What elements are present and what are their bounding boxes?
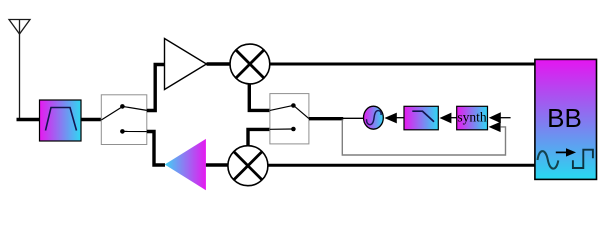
arrow into synth (feedback) (489, 122, 501, 132)
VCO oscillator (364, 106, 384, 129)
arrow into loop filter (440, 113, 452, 124)
low-pass symbol (412, 111, 434, 122)
T/R switch SW1 box (101, 95, 147, 145)
SW2 bottom contact dot (291, 127, 296, 132)
LO wire SW2 to VCO (thick part) (309, 117, 343, 120)
sine symbol in VCO (367, 111, 382, 125)
PA amplifier (165, 139, 206, 190)
wire RX mixer to BB (270, 63, 536, 66)
wire TX mixer to PA (206, 163, 229, 166)
wire antenna to RF filter (17, 118, 41, 121)
SW1 top throw wire (122, 106, 146, 110)
wire TX mixer LO port to SW2 (248, 129, 270, 146)
SW2 top contact dot (291, 103, 296, 108)
synthesizer U1 (457, 106, 488, 130)
bandpass filter FL1 (40, 100, 82, 141)
arrow icon in BB (556, 148, 576, 156)
wire filter to T/R switch (81, 118, 102, 121)
wire SW1 to PA output (147, 132, 165, 166)
feedback wire (gray) (342, 120, 505, 156)
SW1 bottom throw wire (122, 130, 146, 132)
SW2 pole wire (295, 106, 309, 118)
wire SW1 to LNA input (147, 65, 165, 111)
TX mixer MX2 (228, 146, 268, 186)
SW1 top contact dot (120, 104, 125, 109)
wire stub at synth reference input (500, 117, 510, 119)
wire filter to VCO arrow (396, 117, 405, 119)
SW1 pole wire (101, 107, 121, 120)
sine icon in BB (538, 151, 559, 169)
wire BB to TX mixer (268, 164, 536, 167)
arrow into synth (reference from BB) (489, 112, 501, 123)
loop filter FL2 (404, 106, 438, 130)
LO wire thin part into VCO (342, 117, 364, 119)
RX mixer MX1 (230, 44, 270, 84)
LNA amplifier (165, 39, 207, 90)
LO switch SW2 box (270, 94, 309, 144)
svg-text:BB: BB (547, 103, 582, 133)
SW2 top throw wire (270, 106, 292, 111)
wire RX mixer LO port to SW2 (249, 84, 270, 111)
bandpass symbol (46, 108, 77, 131)
arrow into VCO (384, 113, 396, 124)
wire LNA to RX mixer (207, 62, 231, 65)
square wave icon in BB (573, 150, 593, 168)
antenna ANT (9, 20, 30, 119)
svg-text:synth: synth (457, 109, 487, 124)
wire synth to filter arrow (451, 117, 458, 119)
baseband BB block (535, 59, 597, 179)
SW2 bottom throw wire (270, 128, 292, 130)
SW1 bottom contact dot (120, 129, 125, 134)
